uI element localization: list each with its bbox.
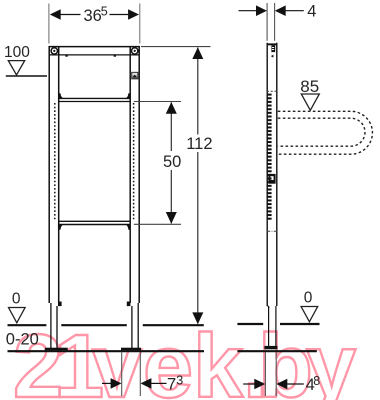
dashed separator (267, 90, 277, 92)
support arm dashed stadium inner (278, 118, 365, 146)
gusset right (125, 93, 130, 98)
svg-text:k: k (193, 317, 244, 400)
clamp notch (127, 302, 131, 307)
extension line left (48, 4, 50, 44)
leg left edge (268, 307, 270, 347)
svg-text:100: 100 (4, 44, 30, 61)
dimension 112 right of front view (141, 47, 213, 325)
crossbar 1 (59, 93, 131, 101)
dimension 50 (134, 102, 182, 225)
svg-text:85: 85 (300, 77, 319, 96)
left leg (45, 302, 68, 351)
rack teeth on side profile (267, 94, 272, 220)
FRONT VIEW frame (49, 46, 140, 303)
svg-text:4: 4 (307, 3, 316, 21)
floor line lower (level 0-20) (8, 350, 317, 352)
profile right edge (276, 43, 278, 306)
svg-text:112: 112 (186, 135, 212, 153)
level marker 0 (left, floor) (9, 290, 26, 323)
svg-text:0-20: 0-20 (6, 331, 39, 349)
foot plate (121, 348, 141, 351)
gusset left (59, 225, 64, 230)
screw dot (271, 55, 274, 58)
svg-text:50: 50 (163, 153, 181, 171)
top bracket (271, 45, 275, 52)
extension line right (139, 4, 141, 44)
level marker 0 (right) (301, 290, 318, 322)
logo plate (268, 174, 275, 184)
top corner screw boxes + circles (51, 48, 138, 57)
SIDE VIEW dimension 4 top (239, 3, 317, 41)
watermark 21vek.by (13, 317, 356, 400)
right rail inner line (129, 47, 131, 303)
top extension (141, 46, 211, 48)
leg step (267, 306, 269, 309)
level marker 85 (300, 77, 319, 110)
gusset right (125, 225, 130, 230)
dim line + arrows (50, 9, 61, 20)
bar tick left (65, 55, 67, 57)
right rail outer line (138, 46, 140, 303)
left corner circle (51, 48, 57, 54)
dimension 7.3 bottom (102, 352, 183, 396)
bar tick right (114, 55, 116, 57)
svg-text:7: 7 (167, 376, 176, 394)
top bar bottom edge (50, 54, 140, 56)
left rail inner line (58, 47, 60, 303)
leg right edge (275, 306, 277, 347)
dimension 36.5 top (49, 4, 140, 44)
gusset left (59, 93, 64, 98)
foot plate (45, 348, 68, 351)
left rail outer line (48, 46, 50, 303)
svg-text:36: 36 (84, 7, 102, 25)
svg-text:5: 5 (101, 5, 108, 19)
right corner circle (132, 48, 138, 54)
SIDE VIEW profile (264, 43, 277, 350)
left rail perforation dotted (54, 103, 56, 221)
profile left edge (266, 43, 268, 306)
floor line upper (level 0) (8, 324, 320, 325)
clamp notch (58, 302, 62, 307)
crossbar 2 (59, 221, 131, 229)
svg-text:8: 8 (313, 374, 320, 388)
level marker 100 (4, 44, 47, 76)
foot plate (264, 346, 277, 349)
dash-dot separator (267, 230, 277, 232)
svg-text:v: v (92, 317, 142, 400)
svg-text:3: 3 (176, 373, 183, 387)
top cap (267, 43, 278, 45)
svg-text:0: 0 (12, 290, 21, 307)
right leg (121, 302, 141, 351)
right rail perforation dotted (133, 103, 135, 221)
dimension 4.8 bottom right (243, 352, 320, 396)
top bar top edge (49, 46, 140, 48)
support arm dashed stadium outer (278, 111, 373, 154)
geberit logo plate on right rail (132, 72, 138, 79)
svg-text:0: 0 (304, 290, 313, 307)
